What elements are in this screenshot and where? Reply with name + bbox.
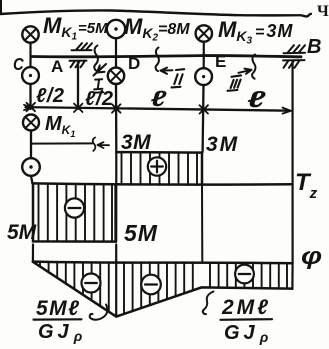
reaction circle-dot below C bbox=[22, 67, 39, 84]
dim tick X at A bbox=[74, 104, 83, 112]
svg-text:ℓ: ℓ bbox=[247, 87, 266, 112]
dimension line bbox=[26, 107, 290, 111]
minus circle phi right bbox=[235, 265, 254, 284]
section cut I squiggle bbox=[94, 46, 98, 72]
svg-text:ℓ: ℓ bbox=[151, 86, 167, 111]
leader squiggle to 5Ml/GJp label bbox=[90, 305, 108, 320]
section label II bbox=[172, 69, 185, 87]
svg-text:Tz: Tz bbox=[295, 169, 318, 202]
leader squiggle to 2Ml/GJp label bbox=[203, 292, 214, 315]
svg-text:D: D bbox=[128, 54, 140, 73]
section label III bbox=[228, 75, 242, 90]
svg-text:3M: 3M bbox=[206, 133, 239, 156]
reaction circle-dot below E bbox=[195, 68, 212, 85]
section III arrow bbox=[239, 69, 252, 74]
svg-text:ℓ/2: ℓ/2 bbox=[85, 88, 114, 110]
svg-text:φ: φ bbox=[301, 242, 322, 269]
fraction bar 5Ml/GJp bbox=[34, 318, 82, 321]
Tz baseline C to B bbox=[33, 183, 293, 184]
section cut II squiggle bbox=[156, 48, 159, 72]
Tz rect +3M hatching bbox=[122, 152, 198, 185]
left edge below 5M rect bbox=[32, 245, 34, 262]
svg-text:5M: 5M bbox=[124, 220, 158, 246]
section II arrow bbox=[161, 68, 173, 74]
torque M_K1 symbol: circle-cross above C bbox=[22, 26, 38, 42]
node C stem bbox=[29, 43, 31, 67]
minus circle in 5M rect bbox=[65, 198, 84, 217]
support at A: upper plate with hatching bbox=[72, 43, 93, 50]
plus circle in 3M rect bbox=[148, 157, 166, 175]
Tz rect +3M outline bbox=[116, 152, 202, 185]
extension line E (continues to Tz rect) bbox=[201, 85, 204, 152]
reaction circle-cross below D bbox=[108, 68, 124, 84]
torque M_K2 symbol: circle-dot above D bbox=[107, 20, 125, 38]
extension line A bbox=[77, 62, 79, 109]
phi diagram hatching bbox=[40, 262, 287, 314]
support at A: lower plate with hatching bbox=[70, 61, 87, 68]
shaft line C to B bbox=[31, 56, 301, 57]
phi diagram bottom edge polyline bbox=[33, 262, 292, 317]
svg-text:2Mℓ: 2Mℓ bbox=[221, 296, 271, 319]
svg-text:B: B bbox=[307, 36, 321, 58]
section I arrow bbox=[94, 64, 107, 76]
page edge tick top-left bbox=[0, 0, 2, 14]
E line from Tz baseline down to phi baseline bbox=[201, 185, 203, 262]
section label I bbox=[94, 79, 104, 93]
working sketch stem bbox=[30, 131, 32, 158]
dim tick X at E bbox=[200, 105, 209, 113]
dim arrowhead right end at B bbox=[283, 108, 292, 114]
svg-text:C: C bbox=[13, 55, 25, 75]
torque M_K3 symbol: circle-cross above E bbox=[196, 25, 212, 41]
svg-text:MK2=8M: MK2=8M bbox=[124, 14, 190, 44]
extension line C bbox=[29, 84, 31, 109]
dim tick X at C bbox=[27, 103, 36, 111]
svg-text:GJρ: GJρ bbox=[224, 322, 272, 345]
working sketch: circle-dot bbox=[22, 158, 40, 176]
node D stem bbox=[115, 38, 117, 67]
dim tick X at D bbox=[112, 104, 121, 112]
svg-text:E: E bbox=[215, 52, 226, 71]
Tz rect -5M outline bbox=[33, 184, 116, 242]
svg-text:ℓ/2: ℓ/2 bbox=[36, 85, 65, 107]
working sketch cut line with arrow bbox=[31, 142, 93, 144]
node E stem bbox=[203, 42, 205, 68]
section cut III squiggle bbox=[252, 55, 255, 79]
working sketch: circle-cross M_K1 bbox=[23, 115, 39, 131]
minus circle phi mid bbox=[141, 275, 161, 295]
svg-text:3M: 3M bbox=[121, 131, 151, 154]
Tz rect -5M hatching bbox=[39, 184, 113, 242]
phi baseline bbox=[33, 262, 293, 264]
svg-text:GJρ: GJρ bbox=[38, 321, 86, 344]
svg-text:MK1: MK1 bbox=[45, 113, 75, 139]
svg-text:MK3=3M: MK3=3M bbox=[218, 17, 293, 47]
top border line of page bbox=[0, 10, 311, 16]
support at B: upper plate with hatching bbox=[284, 45, 306, 53]
svg-text:5M: 5M bbox=[7, 221, 37, 244]
fraction bar 2Ml/GJp bbox=[221, 318, 273, 321]
svg-text:A: A bbox=[51, 57, 63, 76]
D line through phi region bbox=[115, 245, 117, 317]
right border line from B down through diagrams bbox=[291, 61, 293, 290]
svg-text:5Mℓ: 5Mℓ bbox=[36, 297, 81, 320]
D line through Tz region bbox=[115, 152, 117, 242]
svg-text:MK1=5M: MK1=5M bbox=[43, 13, 108, 43]
support at B: lower plate with hatching bbox=[283, 60, 305, 68]
minus circle phi left bbox=[82, 274, 101, 293]
dim arrowhead left end bbox=[24, 105, 31, 110]
extension line D (continues into Tz diagram) bbox=[115, 84, 118, 152]
svg-text:ЧІ: ЧІ bbox=[317, 3, 329, 20]
